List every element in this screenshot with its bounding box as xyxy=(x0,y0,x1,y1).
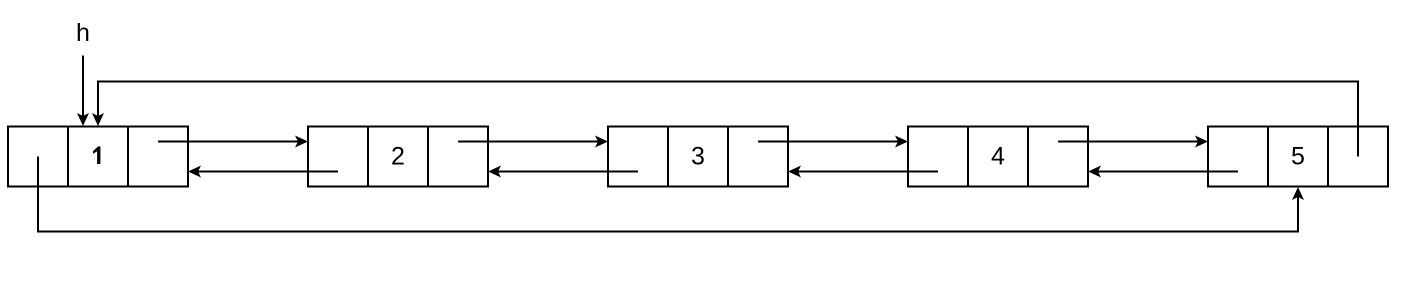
node 3 box xyxy=(608,127,788,187)
wire next pointer node4 to node5 xyxy=(1058,136,1208,148)
wire prev pointer node5 to node4 xyxy=(1088,166,1238,178)
wire prev pointer node4 to node3 xyxy=(788,166,938,178)
wire prev pointer node3 to node2 xyxy=(488,166,638,178)
node 1 value label xyxy=(93,146,100,164)
head pointer arrow h to node 1 xyxy=(77,56,89,127)
node 5 box xyxy=(1208,127,1388,187)
svg-text:3: 3 xyxy=(691,143,705,171)
svg-text:5: 5 xyxy=(1291,143,1305,171)
wire next pointer node2 to node3 xyxy=(458,136,608,148)
node 4 box xyxy=(908,127,1088,187)
wire prev pointer node2 to node1 xyxy=(188,166,338,178)
wire prev pointer node1 wrap to node5 bottom xyxy=(38,157,1304,232)
wire next pointer node1 to node2 xyxy=(158,136,308,148)
node 1 box xyxy=(8,127,188,187)
node 2 box xyxy=(308,127,488,187)
svg-text:2: 2 xyxy=(391,143,405,171)
svg-text:h: h xyxy=(76,19,90,47)
svg-text:4: 4 xyxy=(991,143,1005,171)
wire next pointer node3 to node4 xyxy=(758,136,908,148)
wire next pointer node5 wrap to node1 top xyxy=(92,82,1358,157)
